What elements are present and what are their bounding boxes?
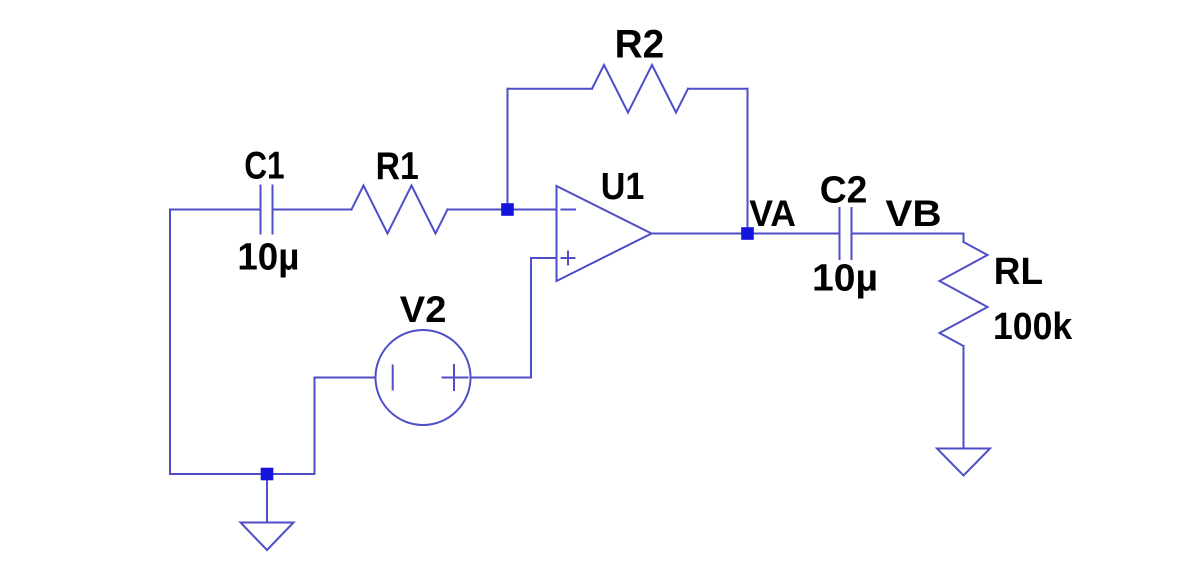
- resistor R1: [352, 186, 448, 234]
- svg-text:RL: RL: [994, 251, 1043, 293]
- wire ground stem left: [266, 474, 268, 523]
- svg-text:U1: U1: [601, 166, 645, 208]
- wire R1 to op-amp: [448, 209, 557, 211]
- svg-text:VA: VA: [749, 193, 796, 234]
- svg-text:V2: V2: [400, 289, 447, 330]
- capacitor C1: [261, 186, 273, 234]
- svg-text:C1: C1: [244, 144, 284, 187]
- wire R2 to output node: [747, 89, 749, 234]
- voltage source V2: [376, 330, 471, 425]
- wire R2 left lead: [508, 88, 593, 90]
- wire plus input lead: [531, 257, 557, 259]
- node junction at R1/R2/op-amp: [501, 203, 514, 216]
- wire plus input riser: [530, 258, 532, 378]
- node junction VA: [741, 227, 754, 240]
- svg-text:10µ: 10µ: [812, 258, 878, 300]
- wire input row to C1: [170, 209, 261, 211]
- wire V2 to riser: [471, 377, 532, 379]
- wire output row: [652, 233, 840, 235]
- svg-text:100k: 100k: [993, 306, 1073, 348]
- svg-text:R2: R2: [615, 23, 665, 67]
- wire V2 left riser: [314, 378, 316, 475]
- svg-text:R1: R1: [376, 145, 419, 188]
- svg-text:C2: C2: [820, 170, 868, 212]
- svg-text:10µ: 10µ: [237, 236, 299, 278]
- wire node to R2 riser: [507, 89, 509, 210]
- svg-text:VB: VB: [885, 193, 941, 234]
- wire left vertical: [169, 210, 171, 475]
- wire V2 left lead: [315, 377, 376, 379]
- op-amp U1: [557, 186, 652, 281]
- resistor R2: [592, 65, 688, 113]
- capacitor C2: [840, 208, 852, 259]
- wire R2 right lead: [688, 88, 748, 90]
- ground left: [241, 523, 294, 551]
- node junction ground left: [261, 468, 274, 481]
- wire C2 to RL: [852, 233, 964, 235]
- wire C1 to R1: [273, 209, 352, 211]
- ground right: [937, 449, 990, 476]
- wire bottom horizontal: [170, 473, 315, 475]
- resistor RL: [940, 234, 988, 448]
